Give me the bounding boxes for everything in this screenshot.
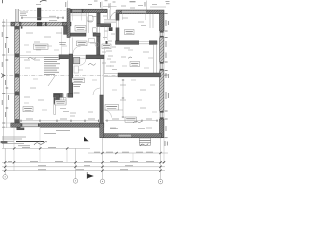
room label box 8	[55, 100, 66, 105]
room label box bath	[72, 78, 85, 83]
corridor east thin line	[103, 45, 105, 74]
scatter small marks upper rooms	[24, 17, 152, 129]
fixture toilet	[88, 16, 93, 23]
wire extension lines from left wall	[3, 22, 15, 127]
node right dim ticks	[165, 13, 168, 137]
right wall darker top segment	[160, 13, 164, 31]
wall exterior bottom-right	[104, 134, 162, 138]
room label box hall	[102, 44, 111, 49]
window jambs right wall	[160, 31, 164, 119]
fixture sink	[93, 28, 97, 33]
wire left dimension line outer	[3, 19, 5, 148]
left wall post 4	[15, 92, 19, 96]
wire bottom vertical axis B	[75, 148, 77, 178]
wall interior top room horizontal right part	[93, 33, 100, 36]
wall exterior left	[15, 22, 20, 127]
entry steps lines	[104, 19, 116, 22]
wall interior mid vertical lower dark	[100, 95, 104, 123]
node porch label text	[20, 12, 28, 16]
squiggle annotation bottom-right	[140, 144, 148, 147]
interior dimension line bottom-left room	[20, 119, 99, 122]
node hall speckle	[102, 16, 116, 66]
wall pier at step corner	[63, 22, 72, 26]
node top text marks middle	[88, 1, 116, 5]
wall interior middle horizontal dark (right section)	[118, 73, 161, 77]
steps bottom-right	[140, 138, 151, 145]
section marker flag bottom	[87, 174, 94, 179]
wire bottom dimension line 1 right	[88, 152, 168, 154]
axis bubble A	[3, 175, 8, 180]
door middle horizontal thin part	[104, 73, 118, 75]
door gap in hall top wall	[139, 40, 149, 44]
text near stair wall corner	[73, 83, 81, 85]
node text above top wall B	[121, 5, 157, 9]
squiggle annotation bath	[88, 64, 96, 66]
wall interior WC left vertical	[97, 13, 100, 27]
wall pier top-left corner	[11, 22, 21, 26]
room label box 3	[125, 30, 135, 35]
room label box 2	[77, 41, 88, 46]
wire bottom dimension line 4	[2, 170, 165, 172]
left wall post 3	[15, 74, 19, 78]
wall pier under chimney	[37, 22, 42, 26]
door entrance opening lines	[108, 10, 117, 20]
wall corner step bottom-left	[17, 127, 24, 130]
node rotated text at x145	[144, 2, 146, 7]
wall tick left of hall wall	[106, 41, 108, 44]
wire bottom vertical x164	[163, 138, 165, 163]
wire bottom vertical x67	[66, 148, 68, 162]
wall corner block below step	[64, 26, 68, 35]
squiggle hall	[128, 57, 132, 58]
wall exterior right	[160, 13, 164, 138]
wire bottom vertical axis C	[102, 138, 104, 179]
node left dim ticks	[2, 22, 8, 127]
wire bottom vertical x133	[132, 153, 134, 162]
wall interior WC bottom	[97, 24, 111, 27]
interior dimension line bottom-right room	[105, 120, 158, 122]
wire section line A-A dash-dot	[2, 75, 168, 77]
notes text bottom-left	[2, 137, 26, 139]
text block schedule left	[44, 58, 60, 75]
room label box 7	[125, 117, 137, 122]
squiggle annotation bottom-left	[34, 142, 47, 145]
door between (thin lines)	[69, 55, 87, 57]
column block near entrance	[109, 28, 112, 31]
window sill lines below wall A	[71, 13, 86, 15]
wire bottom vertical extension x40	[39, 127, 41, 162]
wall step bottom	[100, 123, 104, 138]
node bottom dim text speckle	[8, 148, 154, 170]
squiggle annotation living	[133, 121, 142, 124]
wire top dim short line above entrance	[103, 6, 117, 8]
door arc hall lower	[93, 88, 100, 95]
wall interior horizontal stair room	[54, 93, 73, 97]
window in bottom-right wall	[119, 134, 132, 137]
wire bottom dimension line 1 left	[2, 147, 90, 149]
interior dimension line top room	[21, 17, 64, 19]
wire bottom vertical extension x5	[4, 148, 6, 174]
wall exterior top A	[71, 9, 108, 13]
room label box 4	[130, 62, 140, 67]
window in top wall B	[122, 11, 146, 14]
wall interior light partition below stairs	[54, 97, 56, 114]
duct lines top right room	[149, 14, 151, 28]
node right dim text clumps	[165, 20, 168, 146]
fixture bath items	[89, 39, 95, 43]
door arc center	[73, 46, 81, 54]
node text above pillar	[36, 4, 41, 6]
wall pier mid tick	[45, 22, 47, 26]
node rotated text at x100	[99, 2, 101, 8]
window in top wall A	[72, 10, 82, 12]
room label box 6	[23, 107, 33, 112]
shower square	[73, 57, 79, 63]
wall interior mid vertical thin (hall)	[99, 59, 101, 95]
corridor lines vestibule	[104, 27, 106, 40]
projection lines below window B	[122, 14, 124, 20]
node top squiggle arrow	[40, 1, 47, 3]
axis bubble D	[158, 179, 163, 184]
kitchen wall ticks	[16, 26, 18, 28]
wire extension lines from right wall	[162, 13, 168, 137]
node top-left corner tick	[2, 0, 4, 3]
wall porch right block	[37, 8, 41, 20]
wall interior light partition vertical right	[154, 44, 157, 73]
wire bottom dimension line 2	[2, 161, 165, 163]
wall interior hall top horizontal	[116, 41, 158, 45]
window jambs wall A	[71, 9, 72, 12]
wall interior bath horizontal right part	[86, 55, 104, 59]
axis bubble C	[100, 179, 105, 184]
projection lines below window A	[71, 13, 73, 21]
node section arrow left	[1, 74, 4, 78]
wall porch left stub	[16, 9, 19, 22]
wire top extension line x110	[110, 3, 112, 10]
left wall post 1	[15, 26, 19, 29]
door in vestibule right wall	[116, 21, 120, 28]
left wall post 2	[15, 54, 19, 58]
wall exterior top B	[117, 10, 165, 14]
axis bubble B	[73, 179, 78, 184]
squiggle annotation kitchen	[28, 58, 36, 60]
notes underline dark	[16, 141, 44, 143]
partition bath west thin	[85, 13, 87, 33]
wall exterior bottom-left	[11, 123, 104, 127]
door in stair room wall	[63, 93, 68, 98]
door arc living room	[104, 110, 112, 118]
node rotated text at x109	[108, 4, 110, 9]
right wall darker bottom segment	[160, 119, 164, 138]
wall interior vestibule right	[116, 14, 119, 41]
wire bottom dimension line 3	[2, 166, 165, 168]
room label box 1	[75, 26, 86, 32]
node bottom dim arrow ticks	[4, 147, 165, 172]
stairs block	[54, 95, 66, 105]
wall interior mid vertical upper	[97, 33, 100, 59]
node top-right corner text	[166, 2, 170, 4]
leader line from schedule	[48, 76, 55, 86]
notes text lines 2	[2, 141, 30, 146]
node text above top-left band	[49, 15, 56, 17]
window bottom-left wall	[21, 123, 41, 128]
node left dim text speckle	[2, 32, 8, 117]
wall interior vertical center	[69, 54, 73, 97]
wire bottom vertical extension x14	[13, 127, 15, 171]
wall step top (between low and high sections)	[67, 9, 70, 38]
tiny text above bottom wall detail	[44, 131, 70, 134]
node rotated text at x66	[65, 2, 67, 7]
wire top extension line x146	[146, 1, 148, 11]
wire top extension line x67	[67, 1, 69, 9]
node extra speckle marks	[24, 45, 157, 112]
room label text small kitchen	[59, 43, 66, 45]
wire bottom vertical axis D	[160, 138, 162, 179]
wire left dimension line inner	[6, 19, 8, 128]
node margin mark bottom-left	[1, 141, 8, 143]
wire top extension line x101	[101, 2, 103, 10]
door gap mid vertical	[96, 27, 100, 33]
wall exterior top-left glazed band	[11, 22, 67, 26]
room label box living	[34, 44, 49, 49]
section marker triangle mid-bottom	[84, 137, 89, 142]
window right wall middle	[159, 62, 164, 71]
fixture marks right of center wall	[74, 66, 79, 73]
door in vertical center wall upper	[68, 38, 70, 55]
left wall post 5	[15, 119, 19, 123]
wall interior kitchen/bath horizontal	[59, 55, 69, 59]
partition glazed line left room	[20, 54, 59, 56]
partition faint kitchen divider	[61, 28, 63, 55]
wire top dim short line right	[150, 6, 166, 8]
window right wall lower	[159, 111, 164, 119]
node top text 406	[130, 1, 136, 3]
window jamb blocks bottom-left	[21, 123, 23, 127]
wall interior top room horizontal	[71, 33, 87, 36]
wire porch overhang line	[19, 10, 67, 12]
interior dimension vline living room	[122, 79, 124, 118]
window right wall upper	[159, 31, 164, 38]
door arc bath	[80, 59, 87, 66]
room label box 5	[105, 105, 119, 111]
